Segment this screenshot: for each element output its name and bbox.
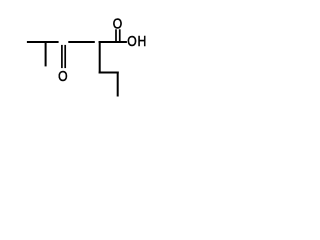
wire: acid C=O double bond right line — [119, 29, 121, 42]
svg-text:O: O — [58, 68, 67, 84]
wire: backbone bond C(=O)-CH2-CH segment — [68, 41, 95, 43]
svg-text:O: O — [127, 33, 136, 49]
svg-text:O: O — [113, 15, 122, 31]
svg-text:H: H — [137, 33, 146, 49]
wire: propyl chain first bond down — [99, 41, 101, 74]
wire: acid C=O double bond left line — [115, 29, 117, 42]
wire: propyl chain last bond down — [117, 72, 119, 97]
wire: propyl chain horizontal bond — [99, 72, 119, 74]
wire: backbone bond CH-COOH segment — [99, 41, 127, 43]
wire: ketone C=O double bond left line — [61, 45, 63, 68]
wire: methyl branch down from CH — [45, 41, 47, 66]
wire: ketone C=O double bond right line — [64, 45, 66, 68]
wire: backbone bond CH3-CH(CH3)-C segment — [27, 41, 59, 43]
